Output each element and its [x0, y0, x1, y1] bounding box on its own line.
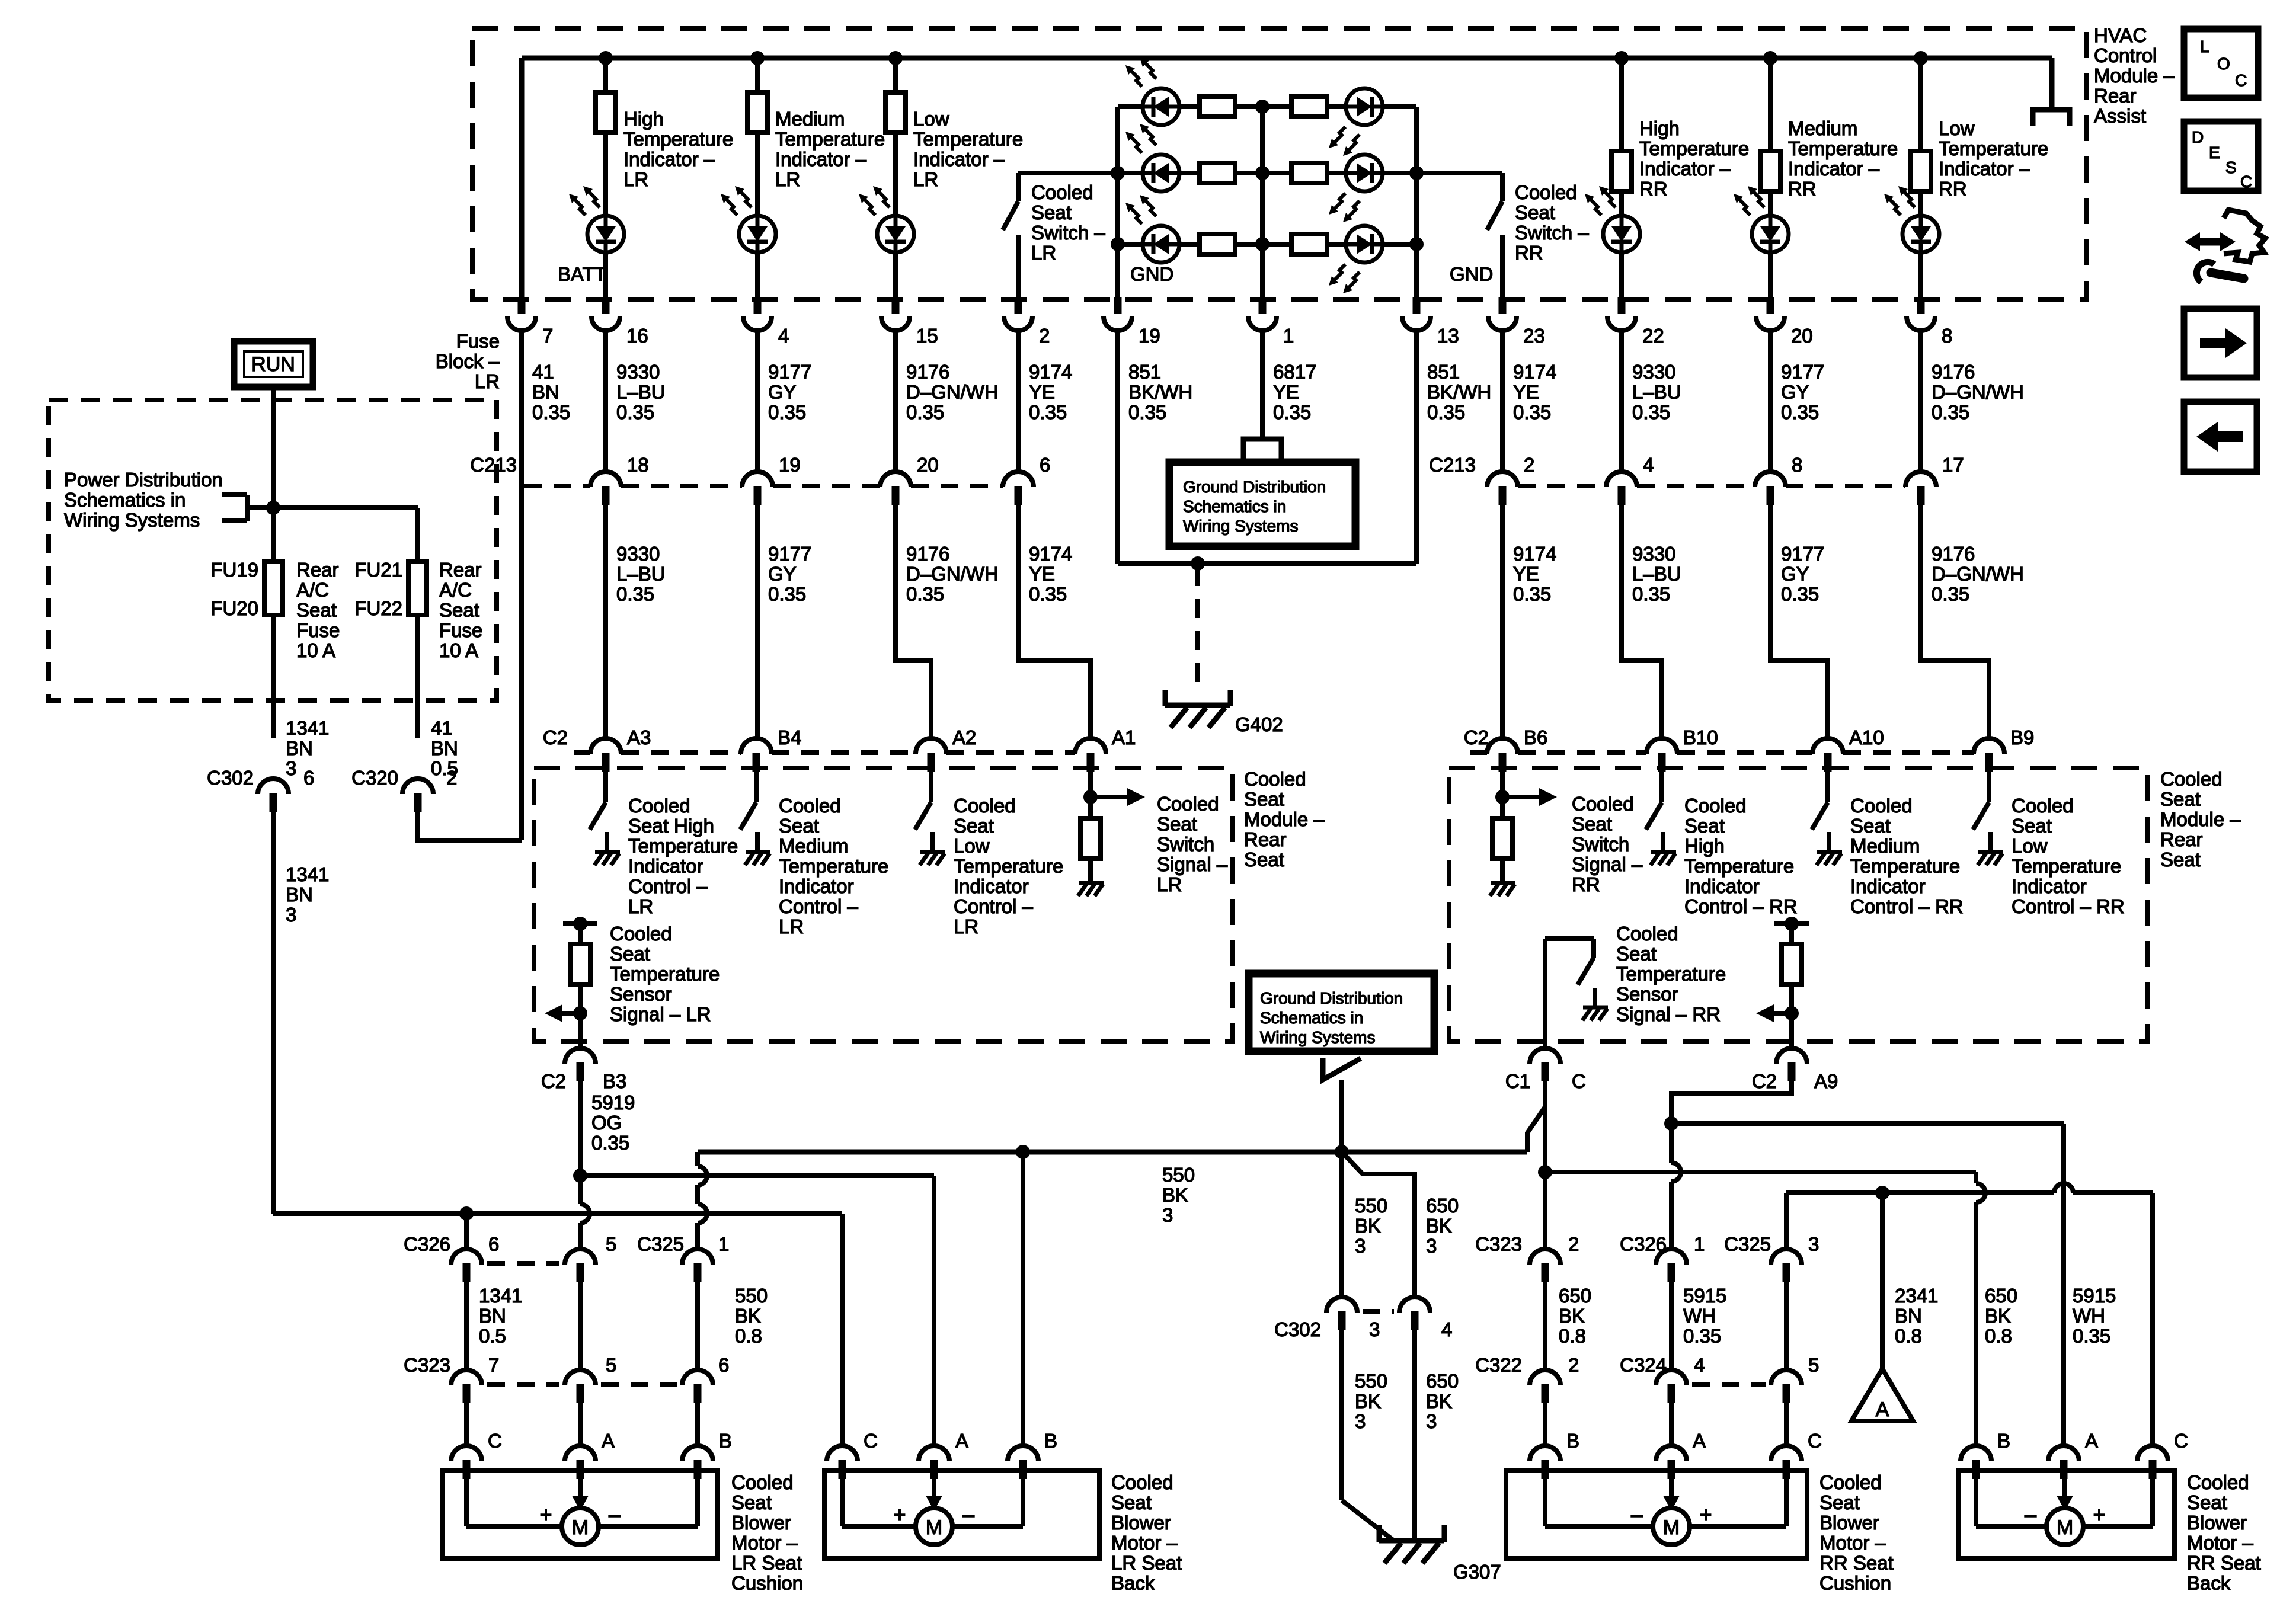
svg-text:C323: C323 — [404, 1354, 450, 1376]
wire pin to C213 1022 — [603, 331, 608, 472]
svg-text:15: 15 — [916, 325, 938, 347]
svg-text:BK: BK — [1355, 1390, 1381, 1412]
svg-text:L–BU: L–BU — [1632, 563, 1681, 585]
svg-text:550: 550 — [1355, 1370, 1387, 1392]
switch Cooled Seat Low Temp Indicator Control RR — [1987, 772, 1991, 802]
svg-text:19: 19 — [1139, 325, 1160, 347]
svg-text:GND: GND — [1450, 263, 1493, 285]
svg-text:Schematics in: Schematics in — [64, 489, 186, 511]
svg-text:Blower: Blower — [731, 1512, 791, 1534]
svg-text:RR Seat: RR Seat — [1819, 1552, 1894, 1574]
svg-text:A2: A2 — [952, 726, 976, 748]
svg-text:22: 22 — [1642, 325, 1664, 347]
svg-text:Indicator –: Indicator – — [1939, 158, 2030, 180]
svg-text:BN: BN — [479, 1305, 506, 1327]
svg-text:BN: BN — [286, 884, 313, 905]
connector C323 pin 6 — [682, 1370, 713, 1385]
svg-text:0.35: 0.35 — [1273, 401, 1311, 423]
connector C213 pin 8 — [1755, 472, 1786, 487]
svg-text:0.35: 0.35 — [1029, 583, 1067, 605]
svg-text:8: 8 — [1942, 325, 1952, 347]
wire to motor row 2820 — [1669, 1403, 1674, 1446]
connector C213 pin 6 — [1003, 472, 1034, 487]
ground G307 — [1379, 1538, 1444, 1544]
connector C325 pin 1 — [682, 1249, 713, 1265]
wire col2820 — [1669, 1282, 1674, 1370]
pin 2 HVAC module — [1015, 297, 1022, 314]
svg-text:6817: 6817 — [1273, 361, 1316, 383]
connector C326 pin 5 — [565, 1249, 596, 1265]
svg-text:Control – RR: Control – RR — [1850, 895, 1964, 917]
wire feed LR back motor A — [580, 1173, 934, 1178]
svg-text:3: 3 — [1355, 1235, 1366, 1257]
svg-text:23: 23 — [1523, 325, 1545, 347]
switch Cooled Seat High Temp Indicator Control LR — [603, 772, 608, 802]
svg-text:Temperature: Temperature — [623, 128, 733, 150]
connector C1 pin C — [1530, 1048, 1560, 1064]
svg-text:BN: BN — [532, 381, 559, 403]
svg-text:YE: YE — [1029, 563, 1055, 585]
pin B blower motor — [1961, 1446, 1991, 1461]
svg-text:Low: Low — [913, 108, 949, 130]
svg-text:3: 3 — [1426, 1410, 1437, 1432]
svg-text:650: 650 — [1426, 1370, 1459, 1392]
wire 550 BK 3 to C302-3 — [1339, 1152, 1344, 1297]
node matrix (2130,180) — [1255, 100, 1269, 114]
node G402 junction — [1191, 556, 1205, 571]
jog 9330 to B10 — [1622, 505, 1662, 738]
switch Cooled Seat Low Temp Indicator Control LR — [929, 772, 933, 802]
svg-text:20: 20 — [1791, 325, 1813, 347]
svg-text:Rear: Rear — [439, 559, 482, 581]
wire 851 pin13 down — [1414, 331, 1419, 564]
svg-text:9330: 9330 — [616, 361, 660, 383]
wire 5915 WH from A9 — [1671, 1081, 1792, 1124]
svg-text:Cooled: Cooled — [1244, 768, 1306, 790]
resistor matrix right y292 — [1291, 163, 1327, 183]
jog 9177 to A10 — [1770, 505, 1828, 738]
svg-text:Block –: Block – — [436, 350, 500, 372]
svg-text:Temperature: Temperature — [2012, 855, 2121, 877]
svg-text:Seat: Seat — [1616, 943, 1657, 965]
motor M Cooled Seat Blower Motor RR Seat Back — [1959, 1471, 2175, 1558]
LED Low Temperature Indicator - LR — [877, 216, 914, 252]
svg-text:0.35: 0.35 — [1932, 583, 1969, 605]
icon DESC box — [2184, 121, 2258, 191]
svg-text:3: 3 — [1808, 1233, 1819, 1255]
svg-text:0.35: 0.35 — [1427, 401, 1465, 423]
wire 550 BK 3 bus — [698, 1150, 1527, 1155]
svg-text:Cooled: Cooled — [2160, 768, 2223, 790]
svg-text:Seat: Seat — [2187, 1491, 2227, 1513]
connector pigtail at bus end — [2033, 110, 2070, 126]
wire box2 to ground bus — [1339, 1080, 1344, 1152]
svg-text:Indicator: Indicator — [1684, 875, 1760, 897]
connector C322 pin 2 — [1530, 1370, 1560, 1385]
svg-text:8: 8 — [1792, 454, 1802, 476]
svg-text:BK/WH: BK/WH — [1128, 381, 1192, 403]
connector C323 pin 5 — [565, 1370, 596, 1385]
wire pin to C213 2535 — [1500, 331, 1505, 472]
svg-text:6: 6 — [488, 1233, 499, 1255]
node C1/C junction — [1538, 1165, 1552, 1179]
svg-text:Medium: Medium — [775, 108, 845, 130]
pin 13 HVAC module — [1413, 297, 1421, 314]
connector C2 pin A1 LR — [1075, 738, 1106, 754]
connector C2 pin B4 LR — [741, 738, 772, 754]
svg-text:650: 650 — [1985, 1285, 2017, 1307]
svg-text:Medium: Medium — [1850, 835, 1920, 857]
svg-text:Temperature: Temperature — [1850, 855, 1960, 877]
jog 9176 to A2 — [896, 505, 931, 738]
svg-text:Rear: Rear — [2160, 828, 2203, 850]
svg-text:16: 16 — [626, 325, 648, 347]
svg-text:Temperature: Temperature — [775, 128, 885, 150]
svg-text:0.5: 0.5 — [479, 1325, 506, 1347]
svg-text:Assist: Assist — [2094, 105, 2146, 127]
node bus junction 1278 — [750, 51, 765, 65]
svg-text:1: 1 — [718, 1233, 729, 1255]
svg-text:Module –: Module – — [1244, 808, 1325, 830]
svg-text:Control –: Control – — [954, 895, 1034, 917]
svg-text:Cooled: Cooled — [1684, 795, 1747, 817]
pin 19 HVAC module — [1114, 297, 1122, 314]
wire 41 BN 0.5 from FU22 — [415, 615, 420, 738]
switch Cooled Seat High Temp Indicator Control RR — [1659, 772, 1664, 802]
pin 15 HVAC module — [892, 297, 900, 314]
svg-text:BK: BK — [1426, 1390, 1452, 1412]
ground G402 — [1165, 703, 1230, 708]
svg-text:YE: YE — [1513, 381, 1539, 403]
svg-text:1341: 1341 — [479, 1285, 522, 1307]
svg-text:Switch –: Switch – — [1515, 222, 1589, 244]
LED High Temperature Indicator - LR — [587, 216, 624, 252]
Fuse Block - LR box — [49, 400, 497, 700]
node bus junction 2736 — [1614, 51, 1629, 65]
wire 9330 to A3 — [603, 505, 608, 738]
svg-text:BN: BN — [431, 737, 458, 759]
svg-text:0.35: 0.35 — [1781, 401, 1819, 423]
connector C2 pin A3 LR — [590, 738, 621, 754]
svg-text:9176: 9176 — [906, 543, 949, 565]
node bus junction 3241 — [1914, 51, 1928, 65]
svg-text:Cooled: Cooled — [628, 795, 690, 817]
pin A blower motor — [565, 1446, 596, 1461]
svg-text:Temperature: Temperature — [1616, 963, 1726, 985]
connector C2 pin A9 — [1776, 1048, 1807, 1064]
svg-text:Switch –: Switch – — [1031, 222, 1105, 244]
svg-text:Sensor: Sensor — [1616, 983, 1678, 1005]
svg-text:C2: C2 — [1752, 1070, 1777, 1092]
svg-text:Cooled: Cooled — [1031, 181, 1093, 203]
svg-text:BK: BK — [735, 1305, 761, 1327]
svg-text:650: 650 — [1559, 1285, 1591, 1307]
node matrix (1886,292) — [1111, 166, 1125, 180]
svg-text:Indicator: Indicator — [628, 855, 703, 877]
svg-text:HVAC: HVAC — [2094, 24, 2147, 46]
svg-text:RR: RR — [1788, 178, 1817, 200]
fuse FU19 FU20 Rear A/C Seat Fuse 10A — [264, 561, 283, 615]
resistor Cooled Seat Temperature Sensor Signal LR — [563, 921, 597, 926]
svg-text:Temperature: Temperature — [628, 835, 738, 857]
svg-text:0.35: 0.35 — [591, 1132, 629, 1154]
svg-text:2341: 2341 — [1895, 1285, 1938, 1307]
svg-text:B4: B4 — [778, 726, 801, 748]
svg-text:A: A — [1693, 1430, 1706, 1452]
svg-text:3: 3 — [286, 757, 296, 779]
svg-text:Signal –: Signal – — [1157, 853, 1228, 875]
svg-text:0.35: 0.35 — [532, 401, 570, 423]
wire 1341 BN 3 long — [271, 812, 276, 1214]
wire 5915 down to C326-1 — [1669, 1124, 1674, 1163]
svg-text:Cooled: Cooled — [610, 923, 672, 945]
svg-text:Temperature: Temperature — [954, 855, 1063, 877]
svg-text:Cooled: Cooled — [779, 795, 841, 817]
svg-text:Seat: Seat — [1244, 849, 1284, 870]
svg-text:3: 3 — [1426, 1235, 1437, 1257]
svg-text:Signal –: Signal – — [1572, 853, 1643, 875]
LED matrix left y292 — [1143, 155, 1179, 191]
svg-text:Cooled: Cooled — [1515, 181, 1577, 203]
connector C302 pin 6 — [258, 779, 289, 794]
svg-text:Rear: Rear — [2094, 85, 2137, 107]
wire 650 BK 0.8 to RR back motor B — [1545, 1170, 1976, 1174]
node 5915 junction — [1664, 1116, 1678, 1131]
wire col979 — [578, 1282, 583, 1370]
wire pin to C213 1278 — [755, 331, 760, 472]
svg-text:B: B — [719, 1430, 732, 1452]
resistor matrix right y180 — [1291, 97, 1327, 117]
svg-text:+: + — [2093, 1502, 2105, 1526]
svg-text:Seat: Seat — [1111, 1491, 1152, 1513]
svg-text:Seat High: Seat High — [628, 815, 714, 837]
svg-text:–: – — [1631, 1502, 1643, 1526]
svg-text:Seat: Seat — [779, 815, 819, 837]
svg-text:GY: GY — [1781, 563, 1809, 585]
svg-text:Seat: Seat — [1684, 815, 1725, 837]
svg-text:0.35: 0.35 — [616, 401, 654, 423]
svg-text:4: 4 — [1441, 1318, 1452, 1340]
svg-text:1341: 1341 — [286, 717, 329, 739]
svg-text:6: 6 — [1040, 454, 1050, 476]
svg-text:L: L — [2200, 37, 2209, 56]
switch Cooled Seat Switch - LR — [1016, 173, 1021, 201]
node fuse junction — [266, 501, 280, 515]
resistor matrix left y412 — [1200, 234, 1235, 254]
Ground Distribution box 2 — [1249, 974, 1434, 1051]
connector C2 pin B6 RR — [1487, 738, 1518, 754]
svg-text:0.35: 0.35 — [1632, 401, 1670, 423]
svg-text:3: 3 — [1369, 1318, 1380, 1340]
Cooled Seat Module box RR — [1449, 768, 2147, 1042]
resistor matrix left y292 — [1200, 163, 1235, 183]
svg-text:10 A: 10 A — [439, 639, 478, 661]
svg-text:BK: BK — [1985, 1305, 2011, 1327]
svg-text:–: – — [2025, 1502, 2036, 1526]
wire 2341 BN feed rail — [1786, 1190, 2054, 1195]
svg-text:550: 550 — [1355, 1195, 1387, 1217]
svg-text:Fuse: Fuse — [456, 330, 500, 352]
svg-text:Module –: Module – — [2160, 808, 2241, 830]
svg-text:D–GN/WH: D–GN/WH — [906, 563, 999, 585]
svg-text:Schematics in: Schematics in — [1183, 497, 1286, 516]
LED matrix right y292 — [1346, 155, 1383, 191]
svg-text:0.35: 0.35 — [906, 583, 944, 605]
svg-text:B: B — [1044, 1430, 1057, 1452]
svg-text:5: 5 — [606, 1354, 616, 1376]
svg-text:4: 4 — [1694, 1354, 1705, 1376]
svg-text:9176: 9176 — [1932, 361, 1975, 383]
svg-text:0.8: 0.8 — [1985, 1325, 2012, 1347]
svg-text:3: 3 — [1162, 1204, 1173, 1226]
connector C2 pin B10 RR — [1646, 738, 1677, 754]
switch Cooled Seat Medium Temp Indicator Control RR — [1825, 772, 1830, 802]
wire 9177 to B4 — [755, 505, 760, 738]
svg-text:A10: A10 — [1849, 726, 1884, 748]
svg-text:LR: LR — [1031, 242, 1056, 264]
connector C2 pin A2 LR — [916, 738, 946, 754]
icon hand with wrench — [2196, 238, 2224, 246]
svg-text:Seat: Seat — [1157, 813, 1197, 835]
svg-text:Temperature: Temperature — [913, 128, 1023, 150]
connector C213 pin 19 — [742, 472, 773, 487]
svg-text:0.8: 0.8 — [735, 1325, 762, 1347]
svg-text:Medium: Medium — [779, 835, 848, 857]
svg-text:5: 5 — [606, 1233, 616, 1255]
svg-text:0.35: 0.35 — [616, 583, 654, 605]
LED High Temperature Indicator - RR — [1603, 216, 1640, 252]
svg-text:Motor –: Motor – — [2187, 1532, 2254, 1554]
wire BATT bus — [522, 56, 2052, 61]
svg-text:Signal – RR: Signal – RR — [1616, 1003, 1721, 1025]
svg-text:Indicator –: Indicator – — [1639, 158, 1731, 180]
node 5919 junction — [573, 1169, 587, 1183]
connector C323 pin 7 — [451, 1370, 482, 1385]
svg-text:LR: LR — [623, 168, 648, 190]
svg-text:Motor –: Motor – — [1111, 1532, 1178, 1554]
wire pin to C213 3241 — [1918, 331, 1923, 472]
resistor Cooled Seat Temperature Sensor Signal RR A9 — [1774, 921, 1809, 926]
node matrix (2130,292) — [1255, 166, 1269, 180]
svg-text:LR: LR — [1157, 873, 1182, 895]
connector C325 pin 3 — [1771, 1249, 1802, 1265]
svg-text:C302: C302 — [1274, 1318, 1321, 1340]
svg-text:Cooled: Cooled — [2012, 795, 2074, 817]
svg-text:L–BU: L–BU — [1632, 381, 1681, 403]
svg-text:LR: LR — [775, 168, 800, 190]
svg-text:2: 2 — [1039, 325, 1050, 347]
svg-text:Control –: Control – — [628, 875, 708, 897]
resistor Low Temperature Indicator - RR — [1918, 58, 1923, 151]
svg-text:Seat: Seat — [1515, 201, 1555, 223]
wire 1341 BN 3 from FU20 — [271, 615, 276, 738]
node bus junction 1511 — [888, 51, 903, 65]
svg-text:D–GN/WH: D–GN/WH — [906, 381, 999, 403]
wire pin to C213 1511 — [893, 331, 898, 472]
svg-text:Blower: Blower — [1111, 1512, 1171, 1534]
svg-text:2: 2 — [1524, 454, 1534, 476]
pin C blower motor — [451, 1446, 482, 1461]
svg-text:Indicator: Indicator — [2012, 875, 2087, 897]
pin A blower motor — [919, 1446, 949, 1461]
resistor Low Temperature Indicator - LR — [893, 58, 898, 92]
LED matrix right y180 — [1346, 88, 1383, 125]
connector fork to ground box 1 — [1243, 439, 1281, 460]
svg-text:High: High — [1684, 835, 1725, 857]
svg-text:Control: Control — [2094, 44, 2157, 66]
svg-text:Temperature: Temperature — [1639, 137, 1749, 159]
svg-text:Seat: Seat — [2160, 849, 2201, 870]
svg-text:0.35: 0.35 — [1029, 401, 1067, 423]
svg-text:B3: B3 — [603, 1070, 626, 1092]
RUN box — [234, 341, 313, 387]
svg-text:Cooled: Cooled — [1572, 793, 1634, 815]
connector C302 pin 3 — [1326, 1297, 1357, 1313]
svg-text:Cushion: Cushion — [731, 1572, 803, 1594]
svg-text:B: B — [1566, 1430, 1579, 1452]
svg-text:9176: 9176 — [1932, 543, 1975, 565]
resistor Medium Temperature Indicator - LR — [755, 58, 760, 92]
svg-text:Seat: Seat — [1031, 201, 1072, 223]
wire pin to C213 2736 — [1619, 331, 1624, 472]
wire C1/C down to C323-2 — [1543, 1107, 1547, 1249]
svg-text:GY: GY — [768, 381, 797, 403]
pin 1 HVAC module — [1259, 297, 1267, 314]
svg-text:High: High — [623, 108, 664, 130]
svg-text:Seat: Seat — [2160, 788, 2201, 810]
svg-text:1: 1 — [1694, 1233, 1705, 1255]
pin 20 HVAC module — [1767, 297, 1774, 314]
svg-text:4: 4 — [778, 325, 789, 347]
svg-text:9330: 9330 — [1632, 543, 1675, 565]
wire 1341 BN bus — [273, 1211, 842, 1216]
node matrix (1886,412) — [1111, 237, 1125, 251]
svg-text:0.35: 0.35 — [1683, 1325, 1721, 1347]
svg-text:A9: A9 — [1814, 1070, 1838, 1092]
svg-text:L–BU: L–BU — [616, 381, 666, 403]
svg-text:Blower: Blower — [1819, 1512, 1879, 1534]
resistor High Temperature Indicator - RR — [1619, 58, 1624, 151]
node 1341 junction — [459, 1206, 474, 1221]
svg-text:O: O — [2217, 55, 2230, 73]
svg-text:20: 20 — [917, 454, 939, 476]
pin 8 HVAC module — [1917, 297, 1925, 314]
wire mid rail — [1260, 107, 1265, 301]
resistor High Temperature Indicator - LR — [603, 58, 608, 92]
svg-text:9174: 9174 — [1513, 361, 1556, 383]
svg-text:WH: WH — [2073, 1305, 2105, 1327]
connector C213 pin 18 — [590, 472, 621, 487]
node matrix (2130,412) — [1255, 237, 1269, 251]
svg-text:Module –: Module – — [2094, 65, 2175, 87]
jog 9174 to A1 — [1018, 505, 1091, 738]
wire 41 BN joins pin7 — [418, 812, 522, 840]
svg-text:YE: YE — [1273, 381, 1299, 403]
svg-text:851: 851 — [1427, 361, 1460, 383]
svg-text:E: E — [2209, 143, 2220, 162]
bracket power distribution — [222, 492, 247, 497]
svg-text:BK: BK — [1426, 1215, 1452, 1237]
svg-text:Seat: Seat — [2012, 815, 2052, 837]
svg-text:7: 7 — [488, 1354, 499, 1376]
svg-text:Blower: Blower — [2187, 1512, 2247, 1534]
LED Low Temperature Indicator - RR — [1902, 216, 1939, 252]
connector C2 pin B9 RR — [1974, 738, 2004, 754]
pin C blower motor — [2137, 1446, 2168, 1461]
wire pin to C213 1718 — [1016, 331, 1021, 472]
connector C213 pin 4 — [1606, 472, 1637, 487]
node 550/650 junction — [1335, 1145, 1349, 1159]
